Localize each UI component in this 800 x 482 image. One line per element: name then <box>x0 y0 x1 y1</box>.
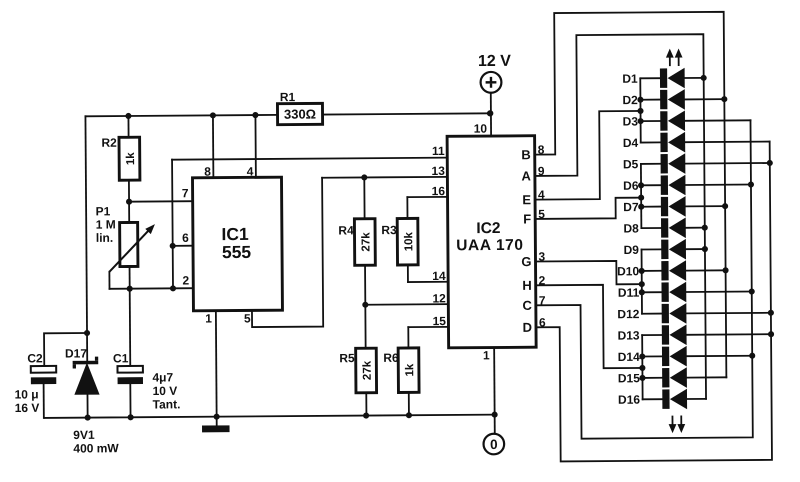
svg-text:7: 7 <box>182 186 189 200</box>
svg-text:1k: 1k <box>125 152 137 165</box>
svg-text:1k: 1k <box>404 363 416 376</box>
svg-text:R6: R6 <box>383 351 399 365</box>
svg-text:D: D <box>523 320 533 335</box>
svg-text:P1: P1 <box>96 204 111 218</box>
svg-text:14: 14 <box>432 269 446 283</box>
svg-text:D11: D11 <box>618 286 640 300</box>
svg-text:UAA 170: UAA 170 <box>456 237 523 254</box>
svg-text:9V1: 9V1 <box>73 428 95 442</box>
svg-text:D16: D16 <box>618 393 640 407</box>
svg-text:D8: D8 <box>623 221 639 235</box>
svg-text:D5: D5 <box>623 157 639 171</box>
svg-text:C1: C1 <box>113 351 129 365</box>
svg-text:R4: R4 <box>338 223 354 237</box>
svg-text:lin.: lin. <box>96 231 113 245</box>
svg-text:7: 7 <box>539 293 546 307</box>
svg-text:16: 16 <box>432 184 446 198</box>
svg-text:A: A <box>521 168 531 183</box>
svg-text:0: 0 <box>490 437 498 452</box>
svg-text:D9: D9 <box>624 243 640 257</box>
svg-text:555: 555 <box>222 242 252 262</box>
svg-text:1: 1 <box>205 311 212 325</box>
svg-text:10: 10 <box>474 122 488 136</box>
svg-text:10k: 10k <box>403 231 415 251</box>
svg-text:C: C <box>522 298 532 313</box>
svg-text:12 V: 12 V <box>478 53 511 70</box>
svg-text:1 M: 1 M <box>96 217 116 231</box>
svg-text:11: 11 <box>432 144 445 158</box>
svg-text:12: 12 <box>432 291 446 305</box>
svg-text:D1: D1 <box>622 72 638 86</box>
svg-text:D15: D15 <box>618 371 640 385</box>
svg-text:D14: D14 <box>618 350 640 364</box>
svg-text:9: 9 <box>538 164 545 178</box>
svg-text:D13: D13 <box>617 328 639 342</box>
svg-text:4: 4 <box>247 164 254 178</box>
svg-text:D10: D10 <box>617 264 639 278</box>
svg-text:D7: D7 <box>623 200 639 214</box>
svg-text:IC2: IC2 <box>476 220 500 237</box>
svg-text:16 V: 16 V <box>15 401 40 415</box>
svg-text:B: B <box>521 147 531 162</box>
svg-text:C2: C2 <box>27 351 43 365</box>
svg-text:5: 5 <box>538 207 545 221</box>
svg-text:8: 8 <box>204 165 211 179</box>
svg-text:2: 2 <box>182 273 189 287</box>
svg-text:15: 15 <box>433 314 447 328</box>
svg-text:R1: R1 <box>280 90 296 104</box>
svg-text:E: E <box>522 192 531 207</box>
svg-text:330Ω: 330Ω <box>284 107 316 122</box>
svg-text:D2: D2 <box>622 93 638 107</box>
svg-text:4: 4 <box>538 188 545 202</box>
svg-text:27k: 27k <box>362 360 374 380</box>
svg-text:Tant.: Tant. <box>153 397 181 411</box>
svg-text:2: 2 <box>539 273 546 287</box>
svg-text:D17: D17 <box>65 346 87 360</box>
svg-text:6: 6 <box>539 315 546 329</box>
svg-text:1: 1 <box>483 348 490 362</box>
svg-text:R5: R5 <box>339 351 355 365</box>
svg-text:R3: R3 <box>381 223 397 237</box>
svg-text:G: G <box>521 254 531 269</box>
svg-text:F: F <box>523 211 531 226</box>
svg-text:D12: D12 <box>617 307 639 321</box>
svg-text:R2: R2 <box>101 136 117 150</box>
svg-text:H: H <box>522 278 532 293</box>
svg-text:D3: D3 <box>623 114 639 128</box>
svg-text:D6: D6 <box>623 179 639 193</box>
svg-text:10 V: 10 V <box>153 384 178 398</box>
svg-text:400 mW: 400 mW <box>73 441 119 455</box>
svg-text:3: 3 <box>538 250 545 264</box>
svg-text:8: 8 <box>538 143 545 157</box>
svg-text:13: 13 <box>431 164 445 178</box>
svg-text:27k: 27k <box>360 232 372 252</box>
svg-text:5: 5 <box>244 311 251 325</box>
svg-text:6: 6 <box>182 231 189 245</box>
svg-text:10 μ: 10 μ <box>15 387 39 401</box>
svg-text:4μ7: 4μ7 <box>152 370 173 384</box>
svg-text:D4: D4 <box>623 136 639 150</box>
